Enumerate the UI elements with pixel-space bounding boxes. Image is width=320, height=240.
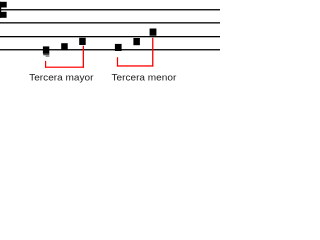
- note 6 (punctum): [150, 29, 157, 36]
- note 2 (punctum): [61, 43, 67, 50]
- note 5 (punctum): [133, 38, 140, 45]
- note 3 (punctum): [79, 38, 86, 45]
- staff line 3: [0, 36, 220, 37]
- C clef: [0, 2, 7, 18]
- bracket Tercera mayor (red): [45, 46, 84, 68]
- bracket Tercera menor (red): [117, 38, 154, 67]
- note 4 (punctum): [115, 44, 122, 51]
- staff line 2: [0, 22, 220, 23]
- staff line 1: [0, 9, 220, 10]
- svg-text:Tercera menor: Tercera menor: [112, 73, 177, 83]
- note 1 (punctum): [43, 46, 49, 57]
- staff line 4: [0, 49, 220, 50]
- svg-text:Tercera mayor: Tercera mayor: [29, 73, 93, 83]
